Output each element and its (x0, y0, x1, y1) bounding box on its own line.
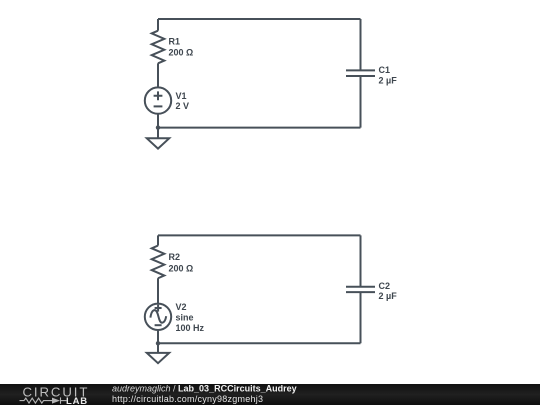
wire left upper circuit 2 (157, 235, 159, 245)
resistor R2 (152, 246, 165, 279)
svg-text:2 µF: 2 µF (379, 76, 398, 86)
node junction circuit 1 (156, 125, 160, 129)
svg-text:http://circuitlab.com/cyny98zg: http://circuitlab.com/cyny98zgmehj3 (112, 394, 263, 404)
wire R2 to V2 (157, 278, 159, 303)
capacitor C2 (346, 287, 375, 292)
svg-text:V1: V1 (176, 91, 187, 101)
svg-text:C1: C1 (379, 65, 391, 75)
svg-text:2 µF: 2 µF (379, 291, 398, 301)
capacitor C1 (346, 70, 375, 76)
svg-text:sine: sine (176, 312, 194, 322)
svg-text:C2: C2 (379, 281, 391, 291)
logo schematic resistor+diode (20, 397, 61, 403)
svg-text:R1: R1 (169, 37, 181, 47)
wire top circuit 1 (158, 18, 361, 20)
svg-text:2 V: 2 V (176, 101, 190, 111)
wire bottom circuit 1 (158, 127, 361, 129)
svg-text:audreymaglich / Lab_03_RCCircu: audreymaglich / Lab_03_RCCircuits_Audrey (112, 383, 297, 393)
wire left upper circuit 1 (157, 19, 159, 31)
ground circuit 2 (147, 343, 169, 363)
wire right circuit 2 (360, 235, 362, 343)
wire V1 to node (157, 114, 159, 128)
svg-text:R2: R2 (169, 252, 181, 262)
resistor R1 (152, 31, 165, 64)
svg-text:200 Ω: 200 Ω (169, 48, 194, 58)
svg-text:LAB: LAB (66, 396, 88, 405)
wire right circuit 1 (360, 19, 362, 128)
wire bottom circuit 2 (158, 342, 361, 344)
svg-text:100 Hz: 100 Hz (176, 323, 205, 333)
wire V2 to node (157, 330, 159, 343)
svg-text:V2: V2 (176, 302, 187, 312)
voltage source V2 sine (145, 304, 171, 330)
svg-text:200 Ω: 200 Ω (169, 263, 194, 273)
wire top circuit 2 (158, 234, 361, 236)
voltage source V1 (145, 87, 171, 113)
node junction circuit 2 (156, 341, 160, 345)
wire R1 to V1 (157, 63, 159, 87)
ground circuit 1 (147, 128, 169, 149)
